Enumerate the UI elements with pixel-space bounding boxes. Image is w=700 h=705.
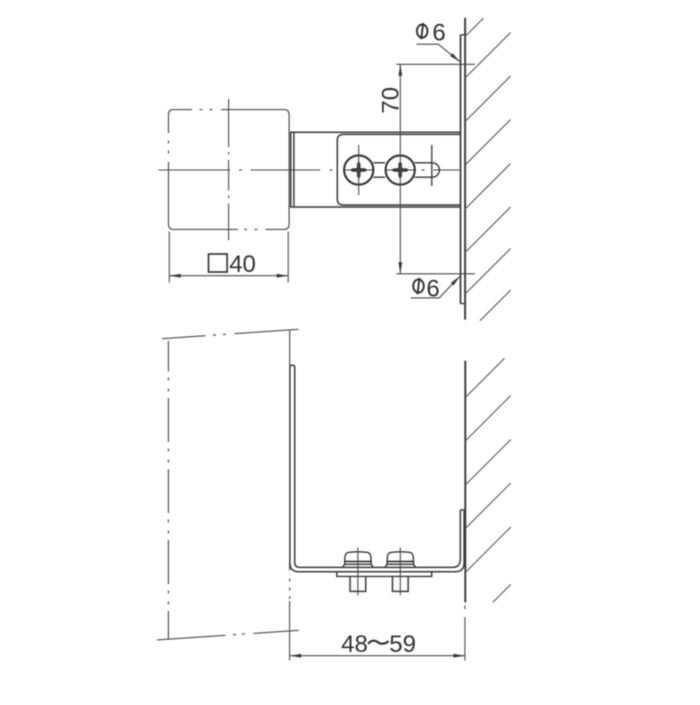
svg-text:6: 6 — [432, 19, 445, 46]
svg-text:48: 48 — [341, 631, 368, 658]
svg-text:40: 40 — [229, 251, 256, 278]
svg-text:59: 59 — [389, 631, 416, 658]
svg-text:70: 70 — [378, 87, 405, 114]
